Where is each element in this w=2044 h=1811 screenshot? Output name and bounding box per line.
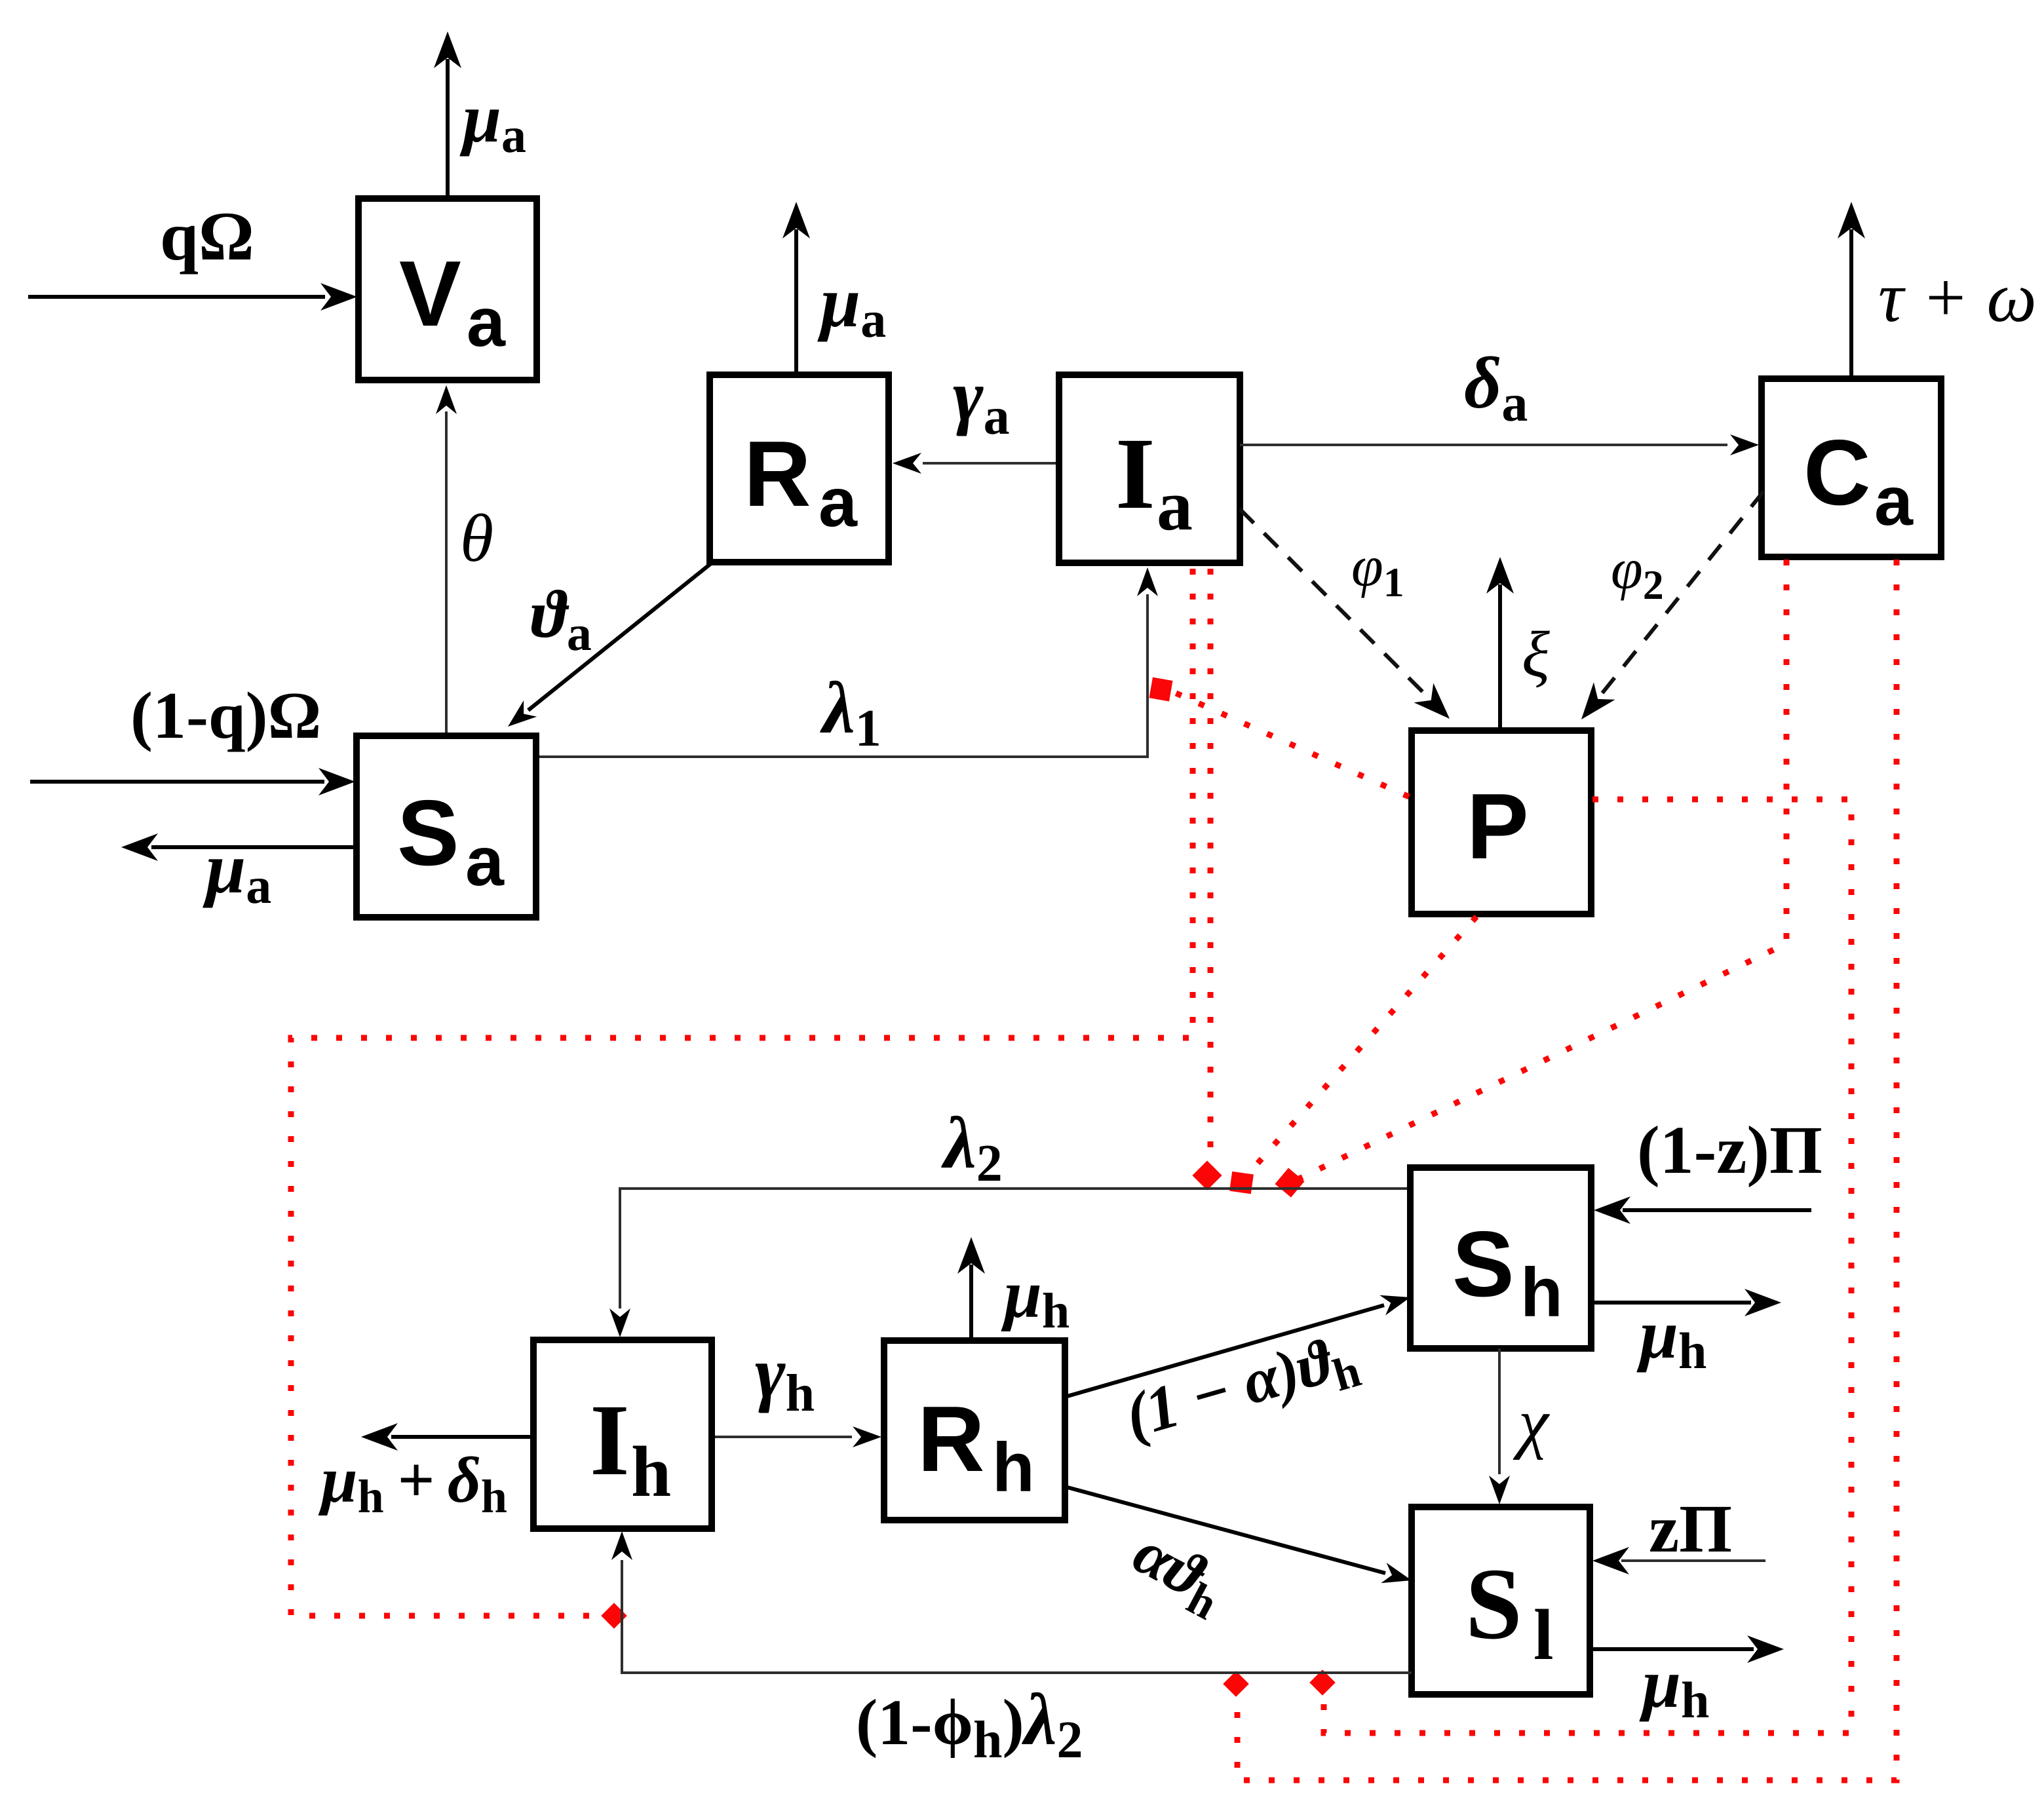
wire theta from Sa up to Va: [445, 411, 448, 736]
svg-text:h: h: [631, 1432, 671, 1512]
wire chi from Sh down to Sl: [1498, 1348, 1501, 1474]
svg-text:τ + ω: τ + ω: [1878, 259, 2037, 337]
red dotted path P to Sh junction: [1245, 917, 1476, 1177]
wire mu_h + delta_h out of Ih left: [391, 1435, 533, 1439]
svg-text:R: R: [917, 1387, 985, 1491]
wire mu_h out of Rh top: [969, 1265, 973, 1341]
wire tau+omega out of Ca top: [1849, 229, 1853, 379]
wire vartheta_a from Ra corner to Sa: [528, 563, 711, 710]
svg-text:I: I: [1115, 417, 1155, 530]
red dotted path Ca to Sl (right loop outer): [1237, 560, 1897, 1780]
svg-text:V: V: [399, 242, 461, 346]
svg-text:θ: θ: [460, 501, 493, 576]
compartment Sh: [1410, 1168, 1591, 1348]
compartment Sa: [357, 736, 536, 917]
compartment Ih: [533, 1340, 712, 1529]
svg-text:zΠ: zΠ: [1649, 1491, 1732, 1567]
svg-text:h: h: [992, 1429, 1035, 1506]
wire (1-z)Pi into Sh right: [1623, 1208, 1811, 1212]
red dotted path Ia to Ih (big left loop): [291, 569, 1193, 1616]
svg-text:ξ: ξ: [1522, 618, 1550, 691]
wire qOmega into Va: [28, 295, 325, 299]
compartment Sl: [1412, 1507, 1590, 1694]
compartment P: [1412, 731, 1591, 914]
red dotted path Ca to Sh junction: [1296, 560, 1786, 1180]
dashed wire phi_2 from Ca to P: [1599, 491, 1764, 697]
svg-text:a: a: [819, 464, 858, 541]
compartment Va: [358, 199, 537, 380]
svg-text:R: R: [744, 422, 811, 526]
svg-text:I: I: [590, 1383, 630, 1496]
wire mu_h out of Sl right: [1590, 1647, 1754, 1651]
wire alpha vartheta_h from Rh to Sl: [1065, 1487, 1385, 1573]
red marker diamond Ia-Sh: [1192, 1160, 1222, 1190]
wire gamma_h from Ih to Rh: [712, 1436, 852, 1438]
red dotted path P to lambda1 junction: [1173, 692, 1409, 797]
svg-text:qΩ: qΩ: [160, 198, 254, 275]
svg-text:a: a: [1874, 463, 1914, 540]
red marker square Ca-Sh: [1275, 1168, 1304, 1197]
wire (1-alpha)vartheta_h from Rh to Sh: [1065, 1305, 1384, 1397]
wire lambda_2 from Sh left into Ih top: [620, 1189, 1410, 1308]
wire mu_h out of Sh right: [1591, 1301, 1751, 1305]
red dotted path P to Sl (right loop inner): [1324, 799, 1851, 1733]
wire lambda_1 from Sa right into Ia bottom: [536, 594, 1147, 757]
svg-text:h: h: [1520, 1254, 1563, 1331]
red marker diamond Ih: [601, 1603, 627, 1629]
compartment Ca: [1762, 379, 1941, 557]
svg-text:a: a: [1157, 465, 1193, 545]
svg-text:l: l: [1533, 1595, 1554, 1675]
svg-text:S: S: [1465, 1547, 1522, 1660]
svg-text:μh + δh: μh + δh: [318, 1443, 507, 1523]
svg-text:(1-z)Π: (1-z)Π: [1637, 1113, 1822, 1188]
red marker on lambda1: [1149, 677, 1172, 702]
svg-text:S: S: [397, 781, 459, 885]
wire mu_a out of Sa left: [151, 845, 357, 849]
wire (1-phi_h)lambda_2 from Sl left into Ih bottom: [622, 1560, 1412, 1673]
red dotted path Ia to Sh (vertical): [1208, 569, 1214, 1173]
wire mu_a out of Va top: [446, 59, 450, 199]
wire xi out of P top: [1498, 584, 1502, 729]
dashed wire phi_1 from Ia to P: [1240, 509, 1435, 704]
svg-text:(1-q)Ω: (1-q)Ω: [130, 679, 321, 753]
svg-text:S: S: [1452, 1212, 1514, 1316]
svg-text:χ: χ: [1513, 1385, 1550, 1460]
svg-text:a: a: [467, 284, 506, 361]
wire mu_a out of Ra top: [794, 229, 798, 384]
compartment Ia: [1059, 375, 1240, 563]
svg-text:(1-ϕh)λ2: (1-ϕh)λ2: [856, 1679, 1083, 1769]
wire (1-q)Omega into Sa: [30, 780, 324, 784]
svg-text:a: a: [465, 823, 505, 900]
wire zPi into Sl right: [1621, 1559, 1765, 1562]
red marker diamond P-Sl: [1309, 1669, 1336, 1696]
svg-text:C: C: [1803, 421, 1871, 525]
compartment Rh: [884, 1341, 1065, 1520]
wire gamma_a from Ia to Ra: [923, 462, 1059, 465]
wire delta_a from Ia to Ca: [1240, 444, 1727, 446]
red marker square P-Sh: [1229, 1172, 1254, 1194]
red marker diamond Ca-Sl: [1223, 1671, 1249, 1697]
compartment Ra: [710, 375, 889, 562]
svg-text:P: P: [1467, 774, 1529, 879]
